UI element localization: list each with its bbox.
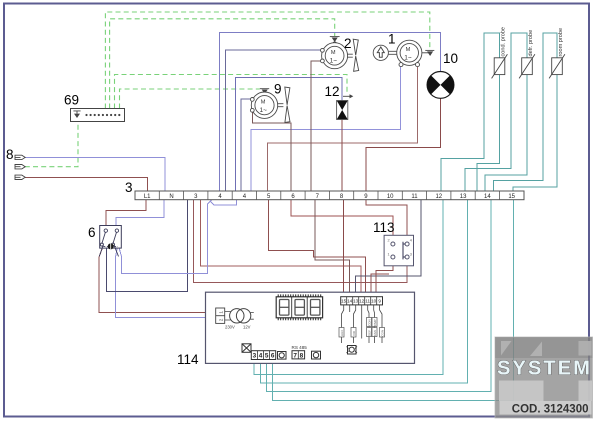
wire motor2 lower terminal to terminal 7 top	[311, 61, 322, 191]
svg-text:12V: 12V	[243, 325, 251, 330]
connector block 69	[71, 109, 125, 122]
wire terminal 9 to relay 113 pin4	[366, 200, 407, 242]
wire terminal 3 to relay 113 pin3	[194, 200, 407, 283]
svg-text:10: 10	[371, 299, 377, 304]
svg-text:1~: 1~	[330, 58, 338, 65]
svg-text:1: 1	[388, 32, 396, 47]
svg-text:3: 3	[253, 353, 257, 360]
svg-text:2: 2	[344, 36, 352, 51]
control board 114 outline	[206, 292, 415, 363]
svg-text:15: 15	[508, 194, 515, 200]
display digits	[280, 300, 320, 316]
probe wire room lower lead to terminal 15	[513, 75, 557, 191]
valve 10	[427, 72, 454, 99]
svg-text:CMP: CMP	[373, 319, 377, 326]
wire L1 bottom to switch 6 pole A	[106, 200, 146, 226]
motor 9 fan unit	[250, 87, 290, 123]
wire valve10 bottom to terminal 9 top	[366, 98, 441, 191]
svg-text:CON: CON	[368, 319, 372, 326]
svg-text:RS 485: RS 485	[292, 345, 308, 350]
earth wire PE1 dashed from 69 to motor1 ground	[105, 12, 429, 109]
earth wire PE2 dashed from 69 to motor2 ground	[110, 19, 335, 109]
probe wire def loop to terminal 13	[465, 33, 527, 191]
wire relay 113 pin1 to board pin9	[376, 259, 393, 297]
wire motor9 lower terminal to terminal 6 top	[252, 113, 291, 192]
wire switch 6 pole B to board connector pin2	[116, 246, 216, 318]
probe thermistor room	[549, 54, 565, 78]
wire motor2 upper terminal to terminal 4a	[225, 50, 322, 191]
svg-text:DEF: DEF	[368, 330, 372, 336]
terminal strip 3	[135, 191, 524, 200]
svg-text:1: 1	[218, 311, 223, 314]
svg-text:10: 10	[387, 194, 394, 200]
svg-text:FAN: FAN	[373, 330, 377, 336]
svg-text:M: M	[331, 50, 336, 56]
svg-text:COD. 3124300: COD. 3124300	[512, 404, 589, 416]
probe wire terminal 13 to board connector pin4	[261, 200, 468, 383]
svg-text:114: 114	[177, 352, 199, 367]
earth wire PE3 dashed from 69 to valve 12 arrow	[115, 75, 348, 109]
svg-text:8: 8	[300, 353, 304, 360]
probe wire cond loop to terminal 12	[441, 33, 500, 191]
wire neutral lug8a to terminal N top	[25, 157, 165, 191]
svg-text:9: 9	[378, 299, 381, 304]
connector lug 8b	[15, 165, 25, 169]
screw mount X left	[242, 344, 251, 353]
wire relay 113 area to board pin10	[371, 274, 389, 297]
svg-text:SYSTEM: SYSTEM	[497, 358, 592, 380]
connector lug 8a	[15, 155, 25, 159]
display pin ticks	[278, 294, 321, 320]
svg-text:113: 113	[373, 220, 395, 235]
svg-text:7: 7	[293, 353, 297, 360]
wire valve12 top to terminal 4b	[236, 77, 343, 191]
svg-text:defr. probe: defr. probe	[528, 30, 534, 57]
buzzer screw right	[312, 351, 321, 359]
ground symbol at motor 1	[422, 50, 435, 55]
svg-text:3: 3	[125, 180, 133, 195]
board connector 3456	[251, 351, 275, 360]
svg-text:1~: 1~	[260, 107, 268, 114]
relay 113	[384, 235, 413, 265]
probe thermistor def	[519, 54, 535, 78]
solenoid valve 12	[337, 94, 354, 119]
svg-text:M: M	[261, 99, 266, 105]
svg-text:2: 2	[218, 318, 223, 321]
seven segment display U2	[276, 297, 322, 318]
transformer T1	[225, 309, 254, 323]
wire switch 6 pole A to board connector pin1	[99, 246, 216, 313]
svg-text:13: 13	[353, 299, 359, 304]
svg-text:1: 1	[388, 253, 390, 257]
svg-text:11: 11	[411, 194, 418, 200]
probe wire room loop to terminal 14	[494, 33, 558, 191]
wire line lug8c to terminal L1 top	[25, 177, 147, 191]
pump motor 1	[373, 40, 422, 66]
svg-text:room probe: room probe	[558, 28, 564, 57]
svg-text:14: 14	[347, 299, 353, 304]
svg-text:8: 8	[6, 147, 14, 162]
wire terminal 8 to board pin15	[343, 200, 345, 297]
svg-text:cond. probe: cond. probe	[501, 27, 507, 57]
earth wire PE4 dashed from 69 to motor9 ground	[120, 89, 260, 109]
svg-text:9: 9	[274, 82, 282, 97]
svg-text:VID: VID	[352, 330, 356, 336]
wire terminal 5 to board pin11	[269, 200, 366, 297]
wire terminal 7 to board pin14	[315, 200, 350, 297]
svg-text:6: 6	[88, 225, 96, 240]
svg-text:12: 12	[325, 84, 340, 99]
connector lug 8c	[15, 175, 25, 179]
probe wire def lower lead to terminal 14	[485, 75, 527, 191]
block output wires and tags	[342, 305, 383, 343]
svg-text:N: N	[169, 194, 173, 200]
wire valve10 top to terminal 4a	[220, 33, 441, 192]
probe wire terminal 15 to board connector pin6	[273, 200, 514, 401]
svg-text:CON: CON	[381, 330, 385, 337]
svg-text:M: M	[406, 47, 411, 53]
probe wire terminal 14 to board connector pin5	[267, 200, 491, 392]
wire terminal 6 to relay 113 pin2	[291, 200, 393, 242]
wire terminal 11 to board pin13	[356, 200, 422, 297]
svg-text:6: 6	[271, 353, 275, 360]
svg-text:12: 12	[435, 194, 442, 200]
wire terminal 3 to board pin12	[201, 200, 362, 297]
svg-text:14: 14	[484, 194, 491, 200]
wire switch 6 to terminal 3 (dark)	[106, 200, 187, 292]
svg-text:12: 12	[359, 299, 365, 304]
svg-text:4: 4	[259, 353, 263, 360]
svg-text:230V: 230V	[225, 325, 235, 330]
svg-text:2: 2	[388, 239, 390, 243]
wire motor9 upper terminal to terminal 4b	[241, 99, 252, 191]
svg-text:L1: L1	[144, 194, 151, 200]
wire jumper terminal 4a to 4b	[210, 200, 236, 205]
board connector 1-2	[216, 308, 225, 323]
wire N bottom to switch 6 pole B	[116, 200, 164, 226]
probe wire terminal 12 to board connector pin3	[254, 200, 443, 375]
screw mount under block	[347, 346, 358, 355]
buzzer screw left	[278, 352, 287, 360]
svg-text:AUX: AUX	[340, 330, 344, 336]
probe thermistor cond	[492, 54, 508, 78]
svg-text:13: 13	[460, 194, 467, 200]
board terminal block 15-9	[341, 297, 383, 305]
wire motor1 left terminal to terminal 4b	[251, 67, 401, 191]
svg-text:69: 69	[64, 93, 79, 108]
svg-text:15: 15	[341, 299, 347, 304]
svg-text:4: 4	[410, 239, 412, 243]
ground symbol at motor 9	[260, 89, 269, 98]
wire motor1 right terminal to terminal 5 top	[268, 67, 418, 191]
svg-text:10: 10	[443, 51, 458, 66]
probe wire cond lower lead to terminal 13	[477, 75, 500, 191]
svg-text:3: 3	[410, 253, 412, 257]
svg-text:5: 5	[265, 353, 269, 360]
svg-text:11: 11	[365, 299, 370, 304]
wire valve12 bottom to terminal 8 top	[341, 120, 343, 192]
ground symbol at motor 2	[330, 37, 340, 46]
earth wire PE5 dashed from connector 8b to 69	[25, 122, 78, 167]
wire terminal 4a down to switch 6 area	[119, 200, 212, 274]
board connector 78	[292, 351, 305, 360]
svg-text:1~: 1~	[404, 55, 412, 62]
switch 6 double pole	[99, 226, 121, 257]
motor 2 fan unit	[321, 39, 359, 71]
logo watermark SYSTEM	[495, 337, 593, 418]
